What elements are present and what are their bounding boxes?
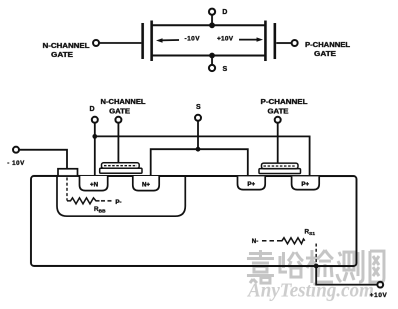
svg-text:AnyTesting.com: AnyTesting.com <box>246 280 374 302</box>
svg-text:S: S <box>222 66 227 73</box>
svg-text:P+: P+ <box>301 181 309 188</box>
svg-text:RS1: RS1 <box>304 229 315 238</box>
svg-text:GATE: GATE <box>109 108 130 115</box>
svg-text:+N: +N <box>90 181 99 188</box>
svg-text:P+: P+ <box>247 181 255 188</box>
svg-text:S: S <box>196 104 201 111</box>
svg-text:P-CHANNEL: P-CHANNEL <box>261 99 309 106</box>
svg-text:N-CHANNEL: N-CHANNEL <box>43 43 91 50</box>
svg-text:GATE: GATE <box>268 109 289 116</box>
svg-text:GATE: GATE <box>51 52 73 59</box>
svg-text:N-CHANNEL: N-CHANNEL <box>101 99 147 106</box>
svg-text:N-: N- <box>252 238 259 245</box>
svg-text:D: D <box>222 9 227 16</box>
svg-text:+10V: +10V <box>217 35 234 42</box>
svg-text:-10V: -10V <box>185 35 201 42</box>
svg-text:P-CHANNEL: P-CHANNEL <box>305 42 351 49</box>
svg-text:GATE: GATE <box>314 51 336 58</box>
svg-text:N+: N+ <box>142 181 150 188</box>
svg-text:P-: P- <box>115 199 121 206</box>
svg-text:- 10V: - 10V <box>7 160 25 167</box>
svg-text:RBB: RBB <box>94 206 106 215</box>
svg-text:+10V: +10V <box>370 292 388 299</box>
svg-text:D: D <box>89 106 94 113</box>
